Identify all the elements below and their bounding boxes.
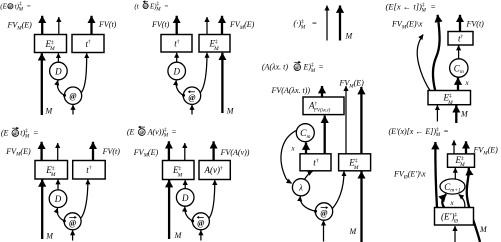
- wire at to D d1: [57, 80, 64, 95]
- svg-text:@: @: [139, 130, 144, 136]
- svg-text:@: @: [69, 219, 77, 228]
- wire at to box E d2: [201, 53, 208, 93]
- thick arrow x to C_m d4: [305, 143, 307, 154]
- thin curvy wire d5: [417, 35, 430, 91]
- svg-text:@: @: [197, 219, 205, 228]
- svg-text:FVM(E): FVM(E): [5, 147, 31, 158]
- thin arrow top d8: [453, 140, 455, 154]
- thick arrow top-left d7: [168, 141, 170, 160]
- thick arrow top-right d6: [92, 142, 94, 161]
- svg-text:(·)‡M =: (·)‡M =: [293, 18, 317, 30]
- svg-text:x: x: [465, 79, 470, 87]
- title d2 circled-at: [143, 0, 149, 8]
- wire at to box A d7: [209, 180, 215, 218]
- svg-text:(E: (E: [0, 3, 7, 11]
- svg-text:FVM(E): FVM(E): [473, 146, 499, 157]
- svg-text:FVØ(E′)\x: FVØ(E′)\x: [393, 170, 426, 181]
- thin arrow top d6: [57, 143, 59, 161]
- arrow into at d1: [72, 105, 74, 115]
- thick arrow top-right d1: [90, 16, 92, 35]
- svg-text:x: x: [450, 199, 455, 207]
- wire lambda to box t d4: [305, 171, 313, 179]
- thick arrow top-right d7: [212, 141, 214, 160]
- circle D d1: [50, 62, 68, 80]
- svg-text:M: M: [174, 231, 183, 240]
- thick arrow top d8: [465, 141, 467, 154]
- junction dot d4: [314, 210, 317, 213]
- box E_M d8: [448, 154, 475, 167]
- box A d4: [303, 97, 344, 115]
- svg-text:FV(t): FV(t): [98, 20, 117, 29]
- arrow into at d4: [323, 221, 325, 242]
- thick wire M d1: [41, 53, 43, 115]
- left arrow into C d8: [442, 194, 446, 208]
- arrow into at d7: [200, 230, 202, 240]
- svg-text:FVM(E)\x: FVM(E)\x: [391, 20, 423, 31]
- thick arrow top-left d2: [176, 16, 178, 35]
- wire at to box t d6: [81, 179, 88, 218]
- thick arrow top-left d1: [41, 16, 43, 35]
- circle lambda d4: [292, 179, 309, 196]
- thick arrow top-right d2: [221, 16, 223, 35]
- arrow into at d2: [191, 105, 193, 115]
- circle C_m d5: [450, 59, 468, 77]
- circle D d6: [49, 190, 67, 208]
- box E_M d6: [35, 161, 68, 180]
- svg-text:M: M: [45, 232, 54, 241]
- wire at to lambda d4: [300, 196, 315, 211]
- svg-text:(A(λx. t): (A(λx. t): [262, 63, 288, 72]
- thick curvy wire M d8: [467, 168, 480, 242]
- svg-text:@: @: [13, 131, 18, 137]
- svg-text:FV(t): FV(t): [102, 147, 121, 156]
- thick arrow top d4: [360, 87, 362, 154]
- svg-text:M: M: [349, 227, 358, 236]
- long thin arrow d4: [345, 86, 347, 154]
- svg-text:@: @: [69, 91, 77, 100]
- svg-text:(t: (t: [134, 2, 139, 10]
- thick wire t to A d4: [324, 116, 326, 154]
- ellipse C_m+1 d8: [440, 179, 465, 194]
- box E_M d4: [339, 154, 371, 171]
- svg-text:E)‡M =: E)‡M =: [303, 62, 324, 74]
- box E_M d7: [163, 161, 195, 180]
- thick arrow x to C_m d5: [457, 78, 459, 91]
- svg-text:E)‡M =: E)‡M =: [149, 1, 169, 13]
- right arrow into C d8: [459, 194, 465, 207]
- svg-text:D: D: [54, 194, 62, 204]
- thick curvy wire d5: [433, 15, 440, 91]
- thick arrow M d5: [455, 105, 457, 123]
- svg-text:D: D: [54, 67, 62, 77]
- thin arrow top d7: [184, 143, 186, 161]
- thick wire M d2: [221, 53, 223, 113]
- svg-text:(E: (E: [127, 128, 135, 137]
- thin arrow below box d5: [436, 105, 438, 121]
- box t d2: [161, 35, 192, 53]
- thick arrow d3: [339, 6, 341, 41]
- circle D d7: [176, 189, 194, 207]
- svg-text:D: D: [172, 67, 180, 77]
- box E_M d1: [35, 35, 67, 53]
- thin arrow d3: [326, 6, 328, 41]
- svg-text:FV(t): FV(t): [466, 20, 485, 29]
- svg-text:FV(t): FV(t): [151, 20, 170, 29]
- svg-text:@: @: [188, 93, 196, 102]
- thick arrow top-left d6: [40, 142, 42, 161]
- svg-text:M: M: [345, 32, 354, 41]
- arrow into at d6: [72, 230, 74, 240]
- title d4 circled-at: [294, 61, 301, 71]
- thick wire M d6: [41, 179, 43, 239]
- svg-text:@: @: [320, 209, 328, 218]
- title d7 circled-at: [138, 126, 145, 136]
- circle at d4: [315, 203, 332, 220]
- svg-text:M: M: [479, 225, 488, 234]
- thick wire M d4: [360, 171, 362, 242]
- svg-text:(E: (E: [1, 129, 9, 138]
- svg-text:t)‡M =: t)‡M =: [15, 1, 32, 13]
- box E_M d2: [199, 35, 230, 53]
- circle D d2: [168, 62, 186, 80]
- thick arrow above t d5: [459, 15, 461, 32]
- wire D to box d7: [184, 180, 186, 188]
- svg-text:FV(A(v)): FV(A(v)): [220, 148, 250, 157]
- svg-text:D: D: [181, 193, 189, 203]
- thin arrow top d1: [58, 17, 60, 35]
- svg-text:M: M: [45, 107, 54, 116]
- wire D to box d2: [176, 53, 178, 62]
- svg-text:λ: λ: [298, 183, 303, 193]
- title d1 circled-at: [8, 4, 13, 9]
- wire D to box d6: [57, 179, 59, 189]
- circle at d6: [64, 213, 81, 230]
- svg-text:@: @: [144, 4, 148, 9]
- thick wire M d7: [168, 180, 170, 239]
- svg-text:@: @: [8, 4, 12, 9]
- svg-text:A(v))‡M =: A(v))‡M =: [147, 127, 177, 139]
- arrow C_m to t d5: [458, 45, 460, 58]
- box t d4: [300, 154, 331, 171]
- circle at d7: [192, 213, 209, 230]
- thin arrow below E-prime d8: [454, 226, 456, 242]
- svg-text:FVM(E): FVM(E): [7, 21, 33, 32]
- wire at to D d2: [176, 80, 183, 95]
- box t d1: [72, 35, 104, 53]
- box E-prime d8: [435, 208, 474, 226]
- title d6 circled-at: [12, 127, 19, 137]
- circle at d1: [64, 87, 81, 104]
- svg-text:(E[x ← t])‡M =: (E[x ← t])‡M =: [386, 2, 436, 14]
- wire at to D d7: [185, 207, 193, 221]
- wire at to box t d1: [82, 53, 87, 92]
- junction dot d7: [191, 220, 194, 223]
- long thick arrow d8: [435, 142, 437, 208]
- svg-text:(E′(x)[x ← E])‡M =: (E′(x)[x ← E])‡M =: [389, 126, 449, 138]
- svg-text:FVM(E): FVM(E): [229, 20, 255, 31]
- thin arrow top d2: [206, 17, 208, 35]
- circle at d2: [183, 87, 200, 104]
- thick arrow above A d4: [321, 86, 323, 97]
- arrow C to box d8: [454, 168, 456, 179]
- junction dot d6: [63, 220, 66, 223]
- wire at to D d6: [57, 208, 64, 221]
- svg-text:M: M: [226, 107, 235, 116]
- loop C_m to lambda d4: [281, 130, 297, 183]
- svg-text:M: M: [460, 110, 469, 119]
- junction dot d2: [182, 94, 185, 97]
- junction dot d1: [63, 94, 66, 97]
- box t d5: [448, 32, 473, 46]
- svg-text:t)‡M =: t)‡M =: [20, 128, 38, 140]
- svg-text:x: x: [291, 145, 296, 153]
- box t d6: [73, 161, 106, 180]
- svg-text:FVM(E): FVM(E): [133, 148, 159, 159]
- box E_M d5: [428, 91, 471, 105]
- box A(v) d7: [199, 161, 230, 180]
- wire at to box E d4: [333, 171, 344, 208]
- svg-text:FV(A(λx. t)): FV(A(λx. t)): [271, 86, 311, 95]
- circle C_m d4: [296, 124, 314, 142]
- svg-text:@: @: [295, 65, 300, 71]
- wire D to box d1: [57, 53, 59, 62]
